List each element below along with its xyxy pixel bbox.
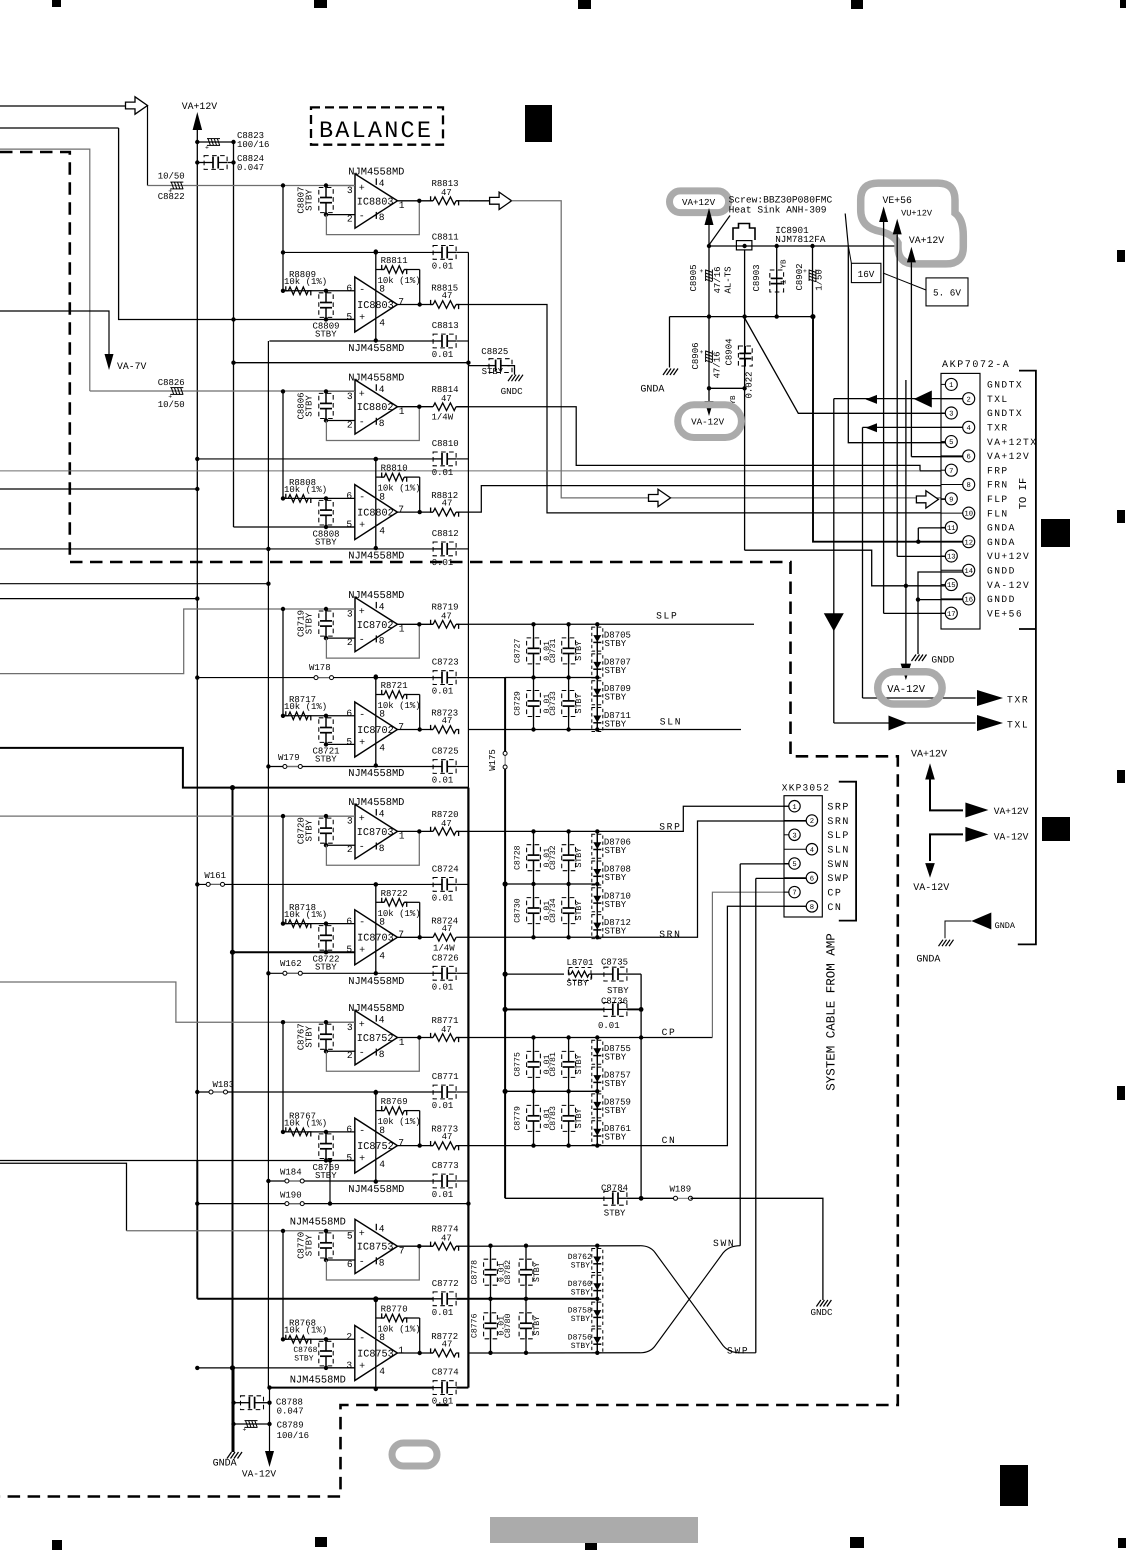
- svg-text:C8782: C8782: [504, 1260, 513, 1285]
- svg-text:VA-12V: VA-12V: [994, 832, 1029, 843]
- svg-text:SRN: SRN: [659, 929, 681, 940]
- svg-text:10k (1%): 10k (1%): [284, 910, 327, 920]
- diode D8711: [592, 708, 603, 732]
- wire GNDA: [945, 921, 971, 938]
- svg-text:C8771: C8771: [432, 1072, 459, 1082]
- jumper W183: [213, 1091, 224, 1093]
- svg-text:4: 4: [379, 601, 385, 612]
- wire -in IC8803: [283, 290, 355, 292]
- svg-text:47: 47: [442, 291, 453, 301]
- svg-text:STBY: STBY: [315, 330, 337, 340]
- diode D8709: [592, 681, 603, 705]
- diode D8706: [592, 834, 603, 858]
- svg-text:4: 4: [379, 809, 385, 820]
- svg-text:4: 4: [967, 425, 971, 433]
- svg-text:C8728: C8728: [514, 845, 523, 870]
- svg-text:13: 13: [947, 554, 956, 562]
- capacitor C8813: [441, 335, 443, 347]
- wire output IC8802: [398, 406, 434, 408]
- wire rail: [268, 1180, 433, 1182]
- svg-text:NJM7812FA: NJM7812FA: [775, 234, 826, 245]
- wire pin9 FLP arrow: [916, 491, 938, 508]
- op-amp IC8803: [355, 174, 398, 228]
- wire output IC8802: [397, 511, 433, 513]
- ground GNDD: [912, 655, 917, 662]
- svg-text:C8724: C8724: [432, 864, 459, 874]
- svg-text:7: 7: [792, 890, 796, 898]
- svg-text:C8732: C8732: [549, 845, 558, 870]
- svg-text:L8701: L8701: [567, 958, 594, 968]
- svg-text:STBY: STBY: [315, 963, 337, 973]
- jumper W162: [287, 972, 298, 974]
- wire output IC8702: [397, 729, 433, 731]
- wire op-amp IC8753 inputs: [326, 1230, 355, 1232]
- capacitor C8730 lower: [533, 884, 535, 908]
- wire pin5 VA+12TX: [848, 246, 945, 443]
- capacitor C8773: [441, 1175, 443, 1187]
- svg-text:2: 2: [810, 818, 814, 826]
- svg-text:STBY: STBY: [305, 395, 315, 417]
- svg-text:7: 7: [398, 504, 404, 515]
- capacitor C8719: [325, 609, 327, 621]
- svg-text:W184: W184: [280, 1167, 302, 1177]
- svg-text:C8733: C8733: [549, 691, 558, 716]
- svg-text:TXL: TXL: [987, 394, 1009, 405]
- svg-text:1/4W: 1/4W: [433, 943, 455, 953]
- wire C8784 rail: [505, 1197, 604, 1199]
- svg-text:STBY: STBY: [533, 1262, 542, 1282]
- svg-text:STBY: STBY: [315, 755, 337, 765]
- capacitor C8725: [441, 761, 443, 773]
- svg-text:C8734: C8734: [549, 898, 558, 923]
- flow arrow VA-12V down: [901, 664, 912, 681]
- pin 5 AKP7072-A: [941, 441, 945, 443]
- svg-text:C8781: C8781: [549, 1052, 558, 1077]
- svg-text:+: +: [359, 521, 365, 532]
- svg-text:STBY: STBY: [482, 367, 504, 377]
- wire output IC8803: [398, 200, 434, 202]
- wire: [0, 127, 119, 129]
- svg-text:10: 10: [964, 511, 973, 519]
- svg-text:GNDA: GNDA: [640, 384, 664, 395]
- svg-text:R8769: R8769: [381, 1097, 408, 1107]
- svg-text:W179: W179: [278, 753, 300, 763]
- wire: [0, 598, 197, 600]
- svg-text:VA-12V: VA-12V: [887, 684, 926, 696]
- wire output IC8753: [397, 1352, 433, 1354]
- wire x283 pair3: [282, 609, 284, 718]
- bus corner to C8788: [466, 1201, 470, 1205]
- svg-text:17: 17: [947, 611, 956, 619]
- svg-text:VA+12V: VA+12V: [987, 451, 1030, 462]
- wire output R8812 to FRN: [456, 486, 941, 512]
- svg-text:4: 4: [379, 1366, 385, 1377]
- svg-text:7: 7: [949, 468, 953, 476]
- svg-text:C8810: C8810: [432, 439, 459, 449]
- power arrow VU+12V: [893, 219, 902, 235]
- svg-text:C8772: C8772: [432, 1279, 459, 1289]
- wire CN rail: [456, 906, 806, 1145]
- pin 6 XKP3052: [784, 877, 806, 879]
- capacitor C8780 lower: [525, 1299, 527, 1323]
- svg-text:STBY: STBY: [575, 1054, 584, 1074]
- wire pair4a input: [0, 815, 355, 817]
- svg-text:-: -: [359, 1333, 365, 1344]
- wire pin17 VE+56: [884, 612, 946, 614]
- svg-text:VA-12V: VA-12V: [913, 883, 949, 894]
- wire VA-12V branch: [930, 834, 963, 861]
- svg-text:+: +: [359, 1154, 365, 1165]
- svg-text:+: +: [359, 313, 365, 324]
- wire feedback IC8752: [326, 1038, 419, 1072]
- capacitor C8779 lower: [533, 1091, 535, 1116]
- capacitor C8731 upper: [568, 624, 570, 648]
- capacitor C8736: [505, 1008, 604, 1010]
- capacitor C8783 lower: [568, 1091, 570, 1116]
- capacitor C8904: [744, 317, 746, 551]
- svg-text:C8904: C8904: [725, 338, 735, 365]
- svg-text:GNDTX: GNDTX: [987, 408, 1023, 419]
- svg-text:C8778: C8778: [471, 1260, 480, 1285]
- wire pin4 TXR: [863, 426, 963, 428]
- wire -in IC8702: [283, 715, 355, 717]
- svg-text:1: 1: [399, 624, 405, 635]
- svg-text:10k (1%): 10k (1%): [284, 1326, 327, 1336]
- diode D8712: [592, 915, 603, 939]
- bus vertical: [196, 142, 198, 1161]
- label 5.6V box: [926, 278, 968, 306]
- svg-text:3: 3: [347, 391, 353, 402]
- wire SWN vertical: [739, 864, 741, 1246]
- svg-text:47: 47: [442, 1340, 453, 1350]
- svg-text:4: 4: [379, 318, 385, 329]
- wire: [0, 583, 268, 585]
- svg-text:+: +: [359, 814, 365, 825]
- diode D8762: [592, 1249, 603, 1273]
- svg-text:GNDTX: GNDTX: [987, 380, 1023, 391]
- svg-text:2: 2: [346, 1332, 352, 1343]
- svg-text:C8775: C8775: [514, 1052, 523, 1077]
- power arrow VA-12V node: [705, 401, 714, 416]
- wire feedback IC8702: [376, 694, 384, 696]
- svg-text:VA+12V: VA+12V: [182, 101, 217, 112]
- wire SWP rail: [468, 1352, 640, 1354]
- wire output IC8753: [398, 1245, 434, 1247]
- svg-text:C8730: C8730: [514, 898, 523, 923]
- svg-text:VE+56: VE+56: [883, 195, 913, 206]
- capacitor C8903: [776, 246, 778, 317]
- wire x283 pair4: [282, 816, 284, 926]
- jumper W179: [287, 766, 298, 768]
- wire VA-12V drop: [905, 586, 907, 664]
- capacitor C8775 upper: [533, 1038, 535, 1062]
- svg-text:+: +: [359, 946, 365, 957]
- svg-text:-: -: [359, 417, 365, 428]
- inductor L8701: [505, 973, 564, 975]
- svg-text:6: 6: [346, 916, 352, 927]
- svg-text:100/16: 100/16: [277, 1431, 309, 1441]
- capacitor C8808: [325, 498, 327, 510]
- wire pin15 VA-12V: [745, 550, 946, 586]
- svg-text:4: 4: [379, 525, 385, 536]
- wire SWP vertical: [755, 878, 757, 1352]
- svg-text:10k (1%): 10k (1%): [378, 276, 421, 286]
- wire -in IC8753: [283, 1338, 355, 1340]
- svg-text:-: -: [359, 211, 365, 222]
- wire +in IC8703: [326, 951, 355, 953]
- wire x283 pair6: [282, 1231, 284, 1341]
- svg-text:GNDA: GNDA: [987, 537, 1016, 548]
- svg-text:W162: W162: [280, 959, 302, 969]
- pin 2 AKP7072-A: [941, 398, 963, 400]
- wire -in IC8752: [283, 1131, 355, 1133]
- capacitor C8771: [441, 1086, 443, 1098]
- wire: [329, 1161, 331, 1204]
- wire feedback IC8802: [326, 407, 419, 441]
- capacitor C8788: [234, 1402, 241, 1404]
- svg-text:W183: W183: [213, 1080, 235, 1090]
- capacitor C8812: [441, 543, 443, 555]
- svg-text:STBY: STBY: [305, 189, 315, 211]
- capacitor C8767: [325, 1022, 327, 1034]
- svg-text:STBY: STBY: [605, 927, 627, 937]
- capacitor C8733 lower: [568, 678, 570, 701]
- svg-text:1: 1: [399, 831, 405, 842]
- op-amp IC8702: [355, 597, 398, 651]
- svg-text:8: 8: [379, 418, 385, 429]
- wire: [640, 974, 642, 1198]
- svg-text:SWN: SWN: [713, 1238, 735, 1249]
- wire feedback IC8702: [326, 624, 419, 658]
- svg-text:W178: W178: [309, 663, 331, 673]
- wire output IC8752: [398, 1037, 434, 1039]
- capacitor C8905: [708, 246, 710, 317]
- svg-text:4: 4: [379, 743, 385, 754]
- power arrow VA+12V node: [705, 208, 714, 225]
- svg-text:1: 1: [781, 279, 789, 284]
- svg-text:AL-TS: AL-TS: [724, 266, 734, 293]
- wire output R8815 to FLN: [456, 305, 941, 513]
- svg-text:C8773: C8773: [432, 1161, 459, 1171]
- svg-text:TXR: TXR: [1007, 695, 1029, 706]
- svg-text:7: 7: [398, 1137, 404, 1148]
- svg-text:STBY: STBY: [605, 1133, 627, 1143]
- wire to +in pair2b: [234, 526, 355, 528]
- svg-text:R8810: R8810: [381, 464, 408, 474]
- svg-text:5. 6V: 5. 6V: [933, 288, 961, 299]
- svg-text:0.01: 0.01: [432, 350, 454, 360]
- svg-text:-: -: [359, 635, 365, 646]
- wire op-amp IC8802 inputs: [326, 390, 355, 392]
- svg-text:0.01: 0.01: [432, 1397, 454, 1407]
- capacitor C8811: [441, 246, 443, 258]
- svg-text:10k (1%): 10k (1%): [378, 701, 421, 711]
- wire rail VA+12V: [709, 245, 897, 247]
- wire rail: [197, 1298, 433, 1300]
- svg-text:C8780: C8780: [504, 1313, 513, 1338]
- bracket AKP: [1018, 371, 1036, 945]
- wire pin column IC8802: [375, 459, 377, 548]
- wire feedback IC8703: [376, 901, 384, 903]
- svg-text:TXR: TXR: [987, 423, 1009, 434]
- svg-text:8: 8: [379, 636, 385, 647]
- svg-text:STBY: STBY: [605, 1079, 627, 1089]
- svg-text:GNDD: GNDD: [987, 594, 1016, 605]
- wire block rails: [531, 622, 535, 626]
- svg-text:4: 4: [379, 178, 385, 189]
- svg-text:1: 1: [792, 804, 796, 812]
- wire x283 pair5: [282, 1022, 284, 1134]
- svg-text:4: 4: [379, 1159, 385, 1170]
- signal arrow TXR: [977, 690, 1003, 706]
- wire SRP rail: [468, 806, 789, 831]
- svg-text:C8822: C8822: [158, 192, 185, 202]
- svg-text:-: -: [359, 842, 365, 853]
- diode D8756: [592, 1329, 603, 1353]
- wire +in IC8753: [326, 1367, 355, 1369]
- jumper W161: [210, 883, 220, 885]
- svg-text:-: -: [359, 1257, 365, 1268]
- svg-text:-: -: [359, 492, 365, 503]
- diode D8761: [592, 1121, 603, 1145]
- svg-text:C8789: C8789: [277, 1421, 304, 1431]
- svg-text:0.01: 0.01: [432, 1190, 454, 1200]
- svg-text:STBY: STBY: [294, 1354, 313, 1363]
- regulator IC8901 heat sink: [733, 224, 755, 241]
- op-amp IC8752: [355, 1011, 398, 1065]
- capacitor C8720: [325, 816, 327, 828]
- svg-text:4: 4: [379, 1223, 385, 1234]
- wire pin3 GNDTX diagonal: [745, 318, 946, 413]
- capacitor C8774: [441, 1382, 443, 1394]
- op-amp IC8753: [355, 1326, 398, 1381]
- svg-text:W161: W161: [204, 871, 226, 881]
- svg-text:STBY: STBY: [571, 1315, 590, 1324]
- wire thick W175 vertical: [468, 677, 505, 679]
- diode D8755: [592, 1040, 603, 1064]
- wire output IC8703: [398, 830, 434, 832]
- bus vertical x468: [467, 252, 469, 787]
- capacitor C8728 upper: [533, 831, 535, 855]
- svg-text:STBY: STBY: [305, 612, 315, 634]
- svg-text:+: +: [359, 1229, 365, 1240]
- pin 1 AKP7072-A: [941, 383, 945, 385]
- svg-text:3: 3: [347, 1022, 353, 1033]
- svg-text:GNDD: GNDD: [987, 566, 1016, 577]
- svg-text:0.01: 0.01: [432, 468, 454, 478]
- svg-text:0.01: 0.01: [432, 776, 454, 786]
- svg-text:STBY: STBY: [575, 694, 584, 714]
- pin 17 AKP7072-A: [941, 612, 945, 614]
- svg-text:2: 2: [967, 396, 971, 404]
- highlight VE+56 group: [861, 183, 964, 264]
- capacitor C8729 lower: [533, 678, 535, 701]
- svg-text:STBY: STBY: [605, 666, 627, 676]
- svg-text:C8729: C8729: [514, 691, 523, 716]
- svg-text:+: +: [359, 607, 365, 618]
- svg-text:STBY: STBY: [571, 1262, 590, 1271]
- svg-text:+: +: [700, 268, 704, 275]
- pin 14 AKP7072-A: [941, 569, 963, 571]
- pin 7 AKP7072-A: [941, 469, 945, 471]
- svg-text:C8902: C8902: [795, 263, 805, 290]
- svg-text:8: 8: [379, 1049, 385, 1060]
- svg-text:FRP: FRP: [987, 465, 1009, 476]
- op-amp IC8752: [355, 1118, 398, 1173]
- regulator center lead: [744, 250, 746, 317]
- wire pair6b input: [197, 1367, 354, 1369]
- svg-text:0.01: 0.01: [432, 982, 454, 992]
- capacitor C8769: [325, 1132, 327, 1144]
- svg-text:SYSTEM CABLE FROM AMP: SYSTEM CABLE FROM AMP: [825, 933, 839, 1091]
- wire long: [234, 362, 469, 364]
- svg-text:C8812: C8812: [432, 529, 459, 539]
- svg-text:C8784: C8784: [601, 1184, 628, 1194]
- wire pin2 TXL: [834, 398, 963, 400]
- svg-text:6: 6: [346, 708, 352, 719]
- diode D8760: [592, 1275, 603, 1299]
- svg-text:STBY: STBY: [575, 1108, 584, 1128]
- ground GNDC: [816, 1300, 821, 1307]
- wire pin12 GNDA thick: [813, 317, 963, 542]
- svg-text:15: 15: [947, 582, 956, 590]
- pin 3 AKP7072-A: [941, 412, 945, 414]
- wire TXL vertical: [833, 399, 835, 723]
- svg-text:STBY: STBY: [305, 1234, 315, 1256]
- wire pair3a input: [0, 609, 355, 674]
- wire rail: [197, 458, 433, 460]
- svg-text:8: 8: [810, 904, 814, 912]
- svg-text:C8779: C8779: [514, 1106, 523, 1131]
- svg-text:NJM4558MD: NJM4558MD: [290, 1375, 346, 1387]
- svg-text:C8813: C8813: [432, 321, 459, 331]
- label 16V box: [851, 263, 881, 282]
- wire output IC8803: [397, 304, 433, 306]
- pin 6 AKP7072-A: [941, 455, 963, 457]
- svg-text:C8727: C8727: [514, 639, 523, 664]
- svg-text:Heat Sink ANH-309: Heat Sink ANH-309: [729, 204, 827, 215]
- svg-text:0.01: 0.01: [432, 1101, 454, 1111]
- wire FLP from R8813: [512, 201, 941, 498]
- svg-text:SWN: SWN: [827, 860, 850, 871]
- jumper W184: [289, 1180, 300, 1182]
- op-amp IC8703: [355, 805, 398, 859]
- svg-text:GNDC: GNDC: [501, 386, 524, 397]
- svg-text:SRP: SRP: [659, 822, 681, 833]
- svg-text:10/50: 10/50: [158, 172, 185, 182]
- capacitor C8735: [591, 973, 604, 975]
- capacitor C8807: [325, 186, 327, 198]
- wire: [0, 488, 197, 490]
- wire block rails: [488, 1244, 492, 1248]
- svg-text:NJM4558MD: NJM4558MD: [290, 1217, 346, 1229]
- svg-text:VA+12V: VA+12V: [911, 750, 947, 761]
- svg-text:STBY: STBY: [605, 1052, 627, 1062]
- wire pin column IC8803: [375, 252, 377, 341]
- svg-text:7: 7: [398, 929, 404, 940]
- svg-text:TXL: TXL: [1007, 720, 1029, 731]
- svg-text:10k (1%): 10k (1%): [378, 484, 421, 494]
- wire TXR vertical: [862, 427, 864, 698]
- wire pair6a input: [0, 1163, 127, 1231]
- svg-text:47/16: 47/16: [713, 351, 723, 378]
- wire rail C8774 to x269: [270, 1387, 331, 1389]
- diode D8707: [592, 654, 603, 678]
- svg-text:6: 6: [967, 454, 971, 462]
- svg-text:CN: CN: [827, 903, 842, 914]
- svg-text:NJM4558MD: NJM4558MD: [348, 976, 404, 988]
- svg-text:STBY: STBY: [604, 1209, 626, 1219]
